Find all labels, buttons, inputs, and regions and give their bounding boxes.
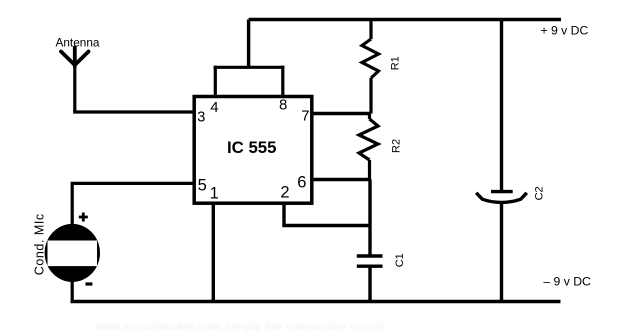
wire C1 to -9V rail xyxy=(368,267,371,302)
wire junction column to C1 xyxy=(368,180,371,255)
svg-text:www.circuitstoday.com simple: www.circuitstoday.com simple FM transmit… xyxy=(94,321,386,333)
wire mic to -9V rail xyxy=(71,282,74,302)
wire +9V rail to C2 xyxy=(500,20,503,192)
resistor R2 xyxy=(359,114,378,180)
node -9V bottom rail xyxy=(71,300,561,304)
condenser mic MK1 xyxy=(45,224,100,282)
svg-text:6: 6 xyxy=(297,174,306,192)
wire bracket pin4-pin8 xyxy=(214,66,285,69)
svg-text:R1: R1 xyxy=(389,56,401,70)
wire pin8 stub xyxy=(281,66,284,97)
svg-text:8: 8 xyxy=(279,96,287,113)
wire pin2 down and right xyxy=(284,204,370,226)
capacitor C1 xyxy=(357,256,383,266)
capacitor C2 xyxy=(476,192,527,203)
mic minus terminal xyxy=(86,282,93,285)
svg-text:+ 9 v DC: + 9 v DC xyxy=(541,24,589,38)
svg-text:Antenna: Antenna xyxy=(56,35,100,49)
mic plus terminal xyxy=(79,213,88,222)
svg-text:1: 1 xyxy=(210,184,219,202)
watermark xyxy=(94,321,386,333)
resistor R1 xyxy=(362,20,379,114)
wire pin5 to mic xyxy=(72,183,194,225)
svg-text:Cond. MIc: Cond. MIc xyxy=(33,213,47,275)
op IC 555 box U1 xyxy=(194,97,312,204)
svg-text:3: 3 xyxy=(197,109,205,125)
wire pin1 to -9V rail xyxy=(212,204,215,302)
antenna A1 xyxy=(61,48,89,67)
wire riser to +9V rail xyxy=(247,20,250,68)
wire pin4 stub xyxy=(214,66,217,97)
wire pin7 to R junction xyxy=(312,112,371,115)
wire C2 to -9V rail xyxy=(500,203,503,302)
svg-text:R2: R2 xyxy=(390,139,402,153)
wire pin6 to junction xyxy=(312,178,370,181)
node +9V top rail xyxy=(249,18,561,21)
svg-text:– 9 v DC: – 9 v DC xyxy=(543,275,591,289)
svg-text:4: 4 xyxy=(210,99,218,116)
svg-text:C2: C2 xyxy=(534,186,546,200)
svg-text:5: 5 xyxy=(198,176,207,194)
svg-text:7: 7 xyxy=(301,108,309,125)
svg-text:C1: C1 xyxy=(394,253,406,267)
svg-text:2: 2 xyxy=(280,183,289,201)
svg-text:IC 555: IC 555 xyxy=(227,138,276,157)
wire antenna to pin 3 xyxy=(73,65,76,112)
